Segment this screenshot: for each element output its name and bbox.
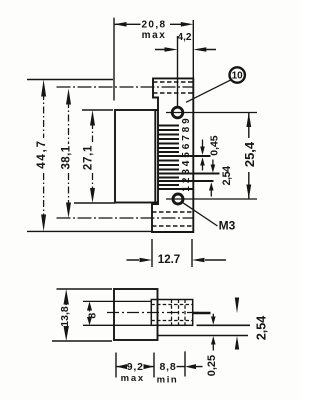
arrow tails 2.54 pitch [211, 160, 213, 197]
dimension 8.8 line segments [177, 366, 203, 368]
arrow 25.4 bottom [246, 185, 251, 200]
pin block dashed internals [172, 300, 186, 326]
arrow 4.2 left (outside, points right) [165, 47, 178, 51]
arrow 2.54 upper [211, 165, 216, 173]
svg-text:9,2: 9,2 [127, 361, 144, 373]
extension line 2.54 bottom [158, 335, 249, 337]
arrow 38.1 bottom [66, 203, 71, 219]
arrow 9.2 right [144, 364, 155, 369]
svg-text:25,4: 25,4 [242, 141, 257, 167]
label 10 circle [230, 67, 245, 82]
dimension 8 line [89, 309, 91, 321]
arrow 9.2 left [116, 364, 127, 369]
dimension 13.8 extension lines [57, 288, 113, 290]
leader line label 10 [186, 80, 230, 102]
arrow tails 0.45 [202, 140, 204, 171]
arrow 2.54 bottom-view upper [235, 298, 239, 314]
arrow 27.1 top [90, 110, 95, 126]
dimension 38.1 line [68, 101, 70, 144]
arrow 25.4 top [246, 113, 251, 128]
svg-text:13,8: 13,8 [59, 306, 71, 327]
dimension 27.1 line [92, 122, 94, 142]
arrow 0.25 upper [211, 317, 216, 325]
screw hole bottom M3 [173, 194, 183, 204]
centerline 38.1 bottom [57, 217, 194, 219]
arrow 12.7 right (outside, points left) [192, 258, 205, 263]
svg-text:2,54: 2,54 [255, 316, 269, 340]
arrow 20.8 left [114, 22, 127, 27]
rect edge extensions to column [155, 110, 158, 203]
svg-text:38,1: 38,1 [61, 145, 73, 169]
hole centerlines / 25.4 extension lines [166, 112, 257, 114]
svg-text:min: min [157, 375, 179, 386]
arrow 0.45 upper [200, 147, 205, 156]
arrow 27.1 bottom [90, 188, 95, 203]
dimension 12.7 arrow tails [127, 259, 227, 261]
pin block [151, 300, 192, 326]
leader line M3 [183, 203, 218, 226]
svg-text:max: max [142, 30, 167, 41]
svg-text:0,25: 0,25 [206, 355, 218, 376]
svg-text:0,45: 0,45 [210, 135, 221, 155]
arrow 0.45 lower [200, 157, 205, 165]
arrowheads [41, 22, 251, 369]
body outline main view [152, 78, 193, 232]
arrow 20.8 right [181, 22, 194, 27]
dimension 44.7 line [43, 93, 45, 138]
arrow 44.7 bottom [41, 215, 46, 232]
svg-text:10: 10 [232, 71, 244, 82]
contact teeth comb [158, 126, 220, 190]
flange hidden dashed lines top [153, 81, 193, 83]
svg-text:44,7: 44,7 [36, 139, 48, 169]
extension line 27.1 bottom [74, 202, 115, 204]
dimension 13.8 line [65, 300, 67, 330]
flange hidden dashed lines bottom [152, 211, 193, 213]
arrow 44.7 top [41, 80, 46, 97]
arrow 8 top [87, 301, 92, 310]
arrow 0.25 lower [211, 336, 216, 345]
extension line 4.2 left [177, 36, 179, 106]
arrow 38.1 top [66, 89, 71, 105]
arrow 8 bottom [87, 317, 92, 325]
dimension 9.2 8.8 extension lines [116, 351, 185, 377]
svg-text:8: 8 [87, 313, 99, 319]
dimension 9.2 line segments [116, 366, 154, 368]
arrow 2.54 bottom-view lower [235, 336, 239, 350]
pin [193, 312, 211, 314]
extension line 27.1 top [82, 109, 113, 111]
arrow 12.7 left (outside, points right) [140, 258, 153, 263]
centerline bottom view [107, 312, 202, 314]
svg-text:27,1: 27,1 [83, 145, 95, 170]
arrow 13.8 top [64, 289, 69, 305]
svg-text:max: max [121, 373, 145, 384]
svg-text:M3: M3 [219, 219, 236, 233]
extension line 44.7 top [27, 79, 113, 81]
arrow 4.2 right (outside, points left) [193, 47, 206, 51]
centerline 38.1 top [57, 86, 194, 88]
dimension 12.7 extension lines [152, 239, 192, 267]
arrow 8.8 right outside [185, 364, 196, 369]
svg-text:2,54: 2,54 [221, 165, 233, 185]
dimension 20.8 line [114, 23, 181, 25]
arrow 2.54 lower [209, 182, 214, 190]
svg-text:12.7: 12.7 [158, 254, 180, 266]
body rectangle side view [114, 289, 158, 340]
svg-text:123456789: 123456789 [181, 115, 192, 191]
extension line 44.7 bottom [27, 230, 152, 232]
section lines 8mm [83, 300, 151, 302]
extension line 20.8 left [113, 18, 115, 101]
arrow tails 0.25 [212, 314, 214, 351]
extension line pin block bottom [197, 324, 251, 326]
arrow 13.8 bottom [64, 326, 69, 341]
dimension 4.2 arrow tails [155, 49, 216, 51]
mating face rectangle [115, 110, 155, 203]
svg-text:8,8: 8,8 [160, 361, 177, 373]
screw hole top [172, 107, 183, 118]
svg-text:20,8: 20,8 [141, 20, 166, 31]
extension line right edge top [192, 20, 194, 78]
dimension 25.4 line [248, 113, 250, 200]
svg-text:4,2: 4,2 [178, 32, 192, 43]
